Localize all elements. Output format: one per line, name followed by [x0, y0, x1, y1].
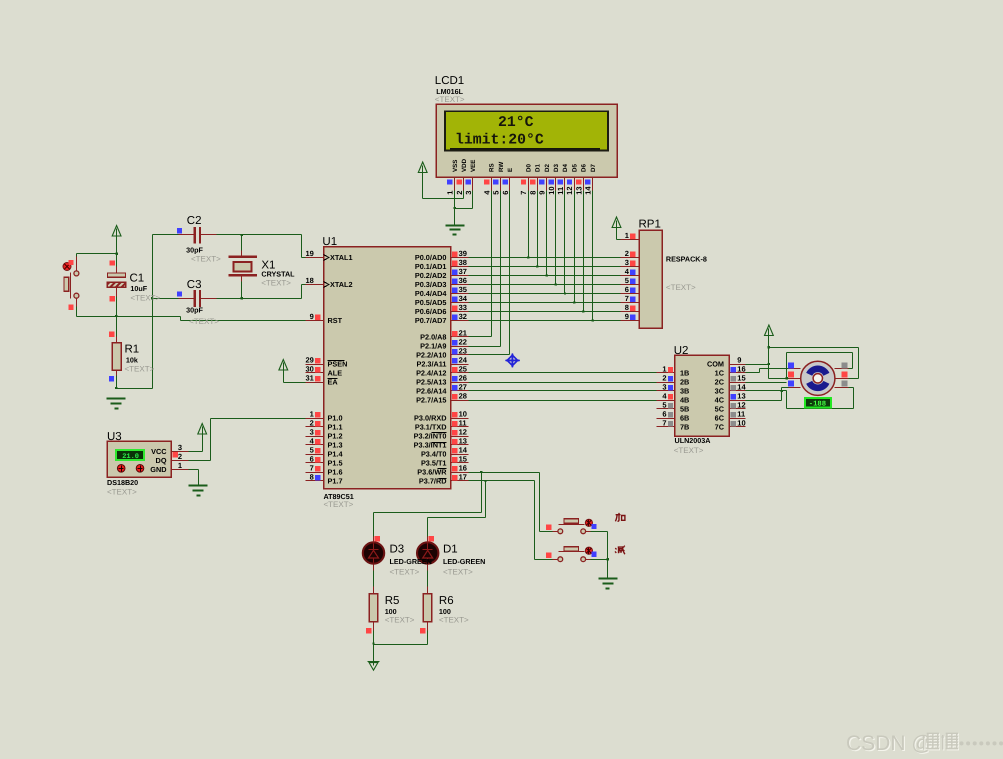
svg-text:D7: D7: [590, 164, 597, 172]
svg-text:30pF: 30pF: [186, 305, 203, 314]
svg-text:RS: RS: [489, 163, 496, 172]
svg-text:LED-GREEN: LED-GREEN: [390, 557, 432, 566]
svg-text:26: 26: [459, 374, 467, 383]
svg-text:6B: 6B: [680, 414, 689, 423]
svg-text:22: 22: [459, 338, 467, 347]
svg-text:<TEXT>: <TEXT>: [443, 568, 473, 577]
svg-text:D1: D1: [535, 164, 542, 172]
svg-text:12: 12: [737, 401, 745, 410]
svg-text:D3: D3: [390, 544, 405, 556]
svg-text:14: 14: [459, 446, 468, 455]
svg-text:16: 16: [737, 365, 745, 374]
svg-text:P0.7/AD7: P0.7/AD7: [415, 316, 447, 325]
svg-text:P2.5/A13: P2.5/A13: [416, 378, 446, 387]
svg-text:5: 5: [492, 191, 501, 195]
svg-text:C3: C3: [187, 279, 202, 291]
svg-text:P1.4: P1.4: [328, 450, 344, 459]
svg-text:1B: 1B: [680, 369, 689, 378]
svg-text:P0.0/AD0: P0.0/AD0: [415, 253, 447, 262]
svg-text:10: 10: [737, 419, 745, 428]
svg-text:P0.5/AD5: P0.5/AD5: [415, 298, 447, 307]
svg-text:5: 5: [662, 401, 666, 410]
svg-text:<TEXT>: <TEXT>: [385, 616, 415, 625]
svg-text:<TEXT>: <TEXT>: [666, 283, 696, 292]
svg-text:1: 1: [446, 191, 455, 195]
svg-text:P0.1/AD1: P0.1/AD1: [415, 262, 447, 271]
svg-text:P0.3/AD3: P0.3/AD3: [415, 280, 447, 289]
svg-text:3C: 3C: [715, 387, 725, 396]
svg-text:2B: 2B: [680, 378, 689, 387]
svg-text:RST: RST: [328, 316, 343, 325]
svg-text:23: 23: [459, 347, 467, 356]
svg-text:XTAL1: XTAL1: [330, 253, 353, 262]
svg-text:R5: R5: [385, 595, 400, 607]
svg-text:37: 37: [459, 267, 467, 276]
svg-text:9: 9: [538, 191, 547, 195]
svg-text:21.0: 21.0: [122, 453, 139, 461]
svg-text:P3.0/RXD: P3.0/RXD: [414, 414, 446, 423]
svg-text:2: 2: [455, 191, 464, 195]
svg-text:LED-GREEN: LED-GREEN: [443, 557, 485, 566]
svg-text:<TEXT>: <TEXT>: [435, 95, 465, 104]
svg-text:E: E: [507, 168, 514, 172]
svg-text:8: 8: [310, 473, 314, 482]
svg-text:DS18B20: DS18B20: [107, 478, 138, 487]
svg-text:33: 33: [459, 303, 467, 312]
svg-text:P3.3/INT1: P3.3/INT1: [414, 441, 447, 450]
svg-text:2: 2: [662, 374, 666, 383]
svg-text:RW: RW: [498, 162, 505, 172]
svg-text:P2.3/A11: P2.3/A11: [416, 360, 446, 369]
svg-text:P0.2/AD2: P0.2/AD2: [415, 271, 447, 280]
svg-text:P2.1/A9: P2.1/A9: [420, 342, 446, 351]
svg-text:14: 14: [737, 383, 746, 392]
svg-text:P1.7: P1.7: [328, 477, 343, 486]
svg-text:5B: 5B: [680, 405, 689, 414]
svg-text:6: 6: [310, 455, 314, 464]
svg-text:<TEXT>: <TEXT>: [439, 616, 469, 625]
svg-text:9: 9: [310, 312, 314, 321]
svg-text:P2.0/A8: P2.0/A8: [420, 333, 446, 342]
svg-text:2: 2: [625, 249, 629, 258]
svg-text:13: 13: [574, 186, 583, 194]
svg-text:R6: R6: [439, 595, 454, 607]
svg-text:<TEXT>: <TEXT>: [130, 294, 160, 303]
svg-text:12: 12: [459, 428, 467, 437]
svg-text:P1.2: P1.2: [328, 432, 343, 441]
svg-text:RESPACK-8: RESPACK-8: [666, 254, 707, 263]
svg-text:3: 3: [464, 191, 473, 195]
svg-text:29: 29: [305, 356, 313, 365]
svg-text:P2.6/A14: P2.6/A14: [416, 387, 447, 396]
svg-text:P3.5/T1: P3.5/T1: [421, 459, 447, 468]
svg-text:2C: 2C: [715, 378, 725, 387]
svg-text:18: 18: [305, 276, 313, 285]
svg-text:4C: 4C: [715, 396, 725, 405]
svg-text:6: 6: [662, 410, 666, 419]
svg-text:D2: D2: [544, 164, 551, 172]
svg-text:P1.6: P1.6: [328, 468, 343, 477]
svg-text:<TEXT>: <TEXT>: [189, 317, 219, 326]
svg-text:P3.7/RD: P3.7/RD: [419, 477, 447, 486]
svg-text:24: 24: [459, 356, 468, 365]
svg-text:7C: 7C: [715, 423, 725, 432]
svg-text:31: 31: [305, 374, 313, 383]
svg-text:8: 8: [528, 191, 537, 195]
svg-text:38: 38: [459, 258, 467, 267]
svg-text:6: 6: [625, 285, 629, 294]
svg-text:5C: 5C: [715, 405, 725, 414]
svg-text:25: 25: [459, 365, 467, 374]
svg-text:8: 8: [625, 303, 629, 312]
svg-text:3: 3: [178, 443, 182, 452]
svg-text:<TEXT>: <TEXT>: [674, 446, 704, 455]
svg-text:VEE: VEE: [470, 160, 477, 172]
svg-text:U2: U2: [674, 345, 689, 357]
svg-text:9: 9: [625, 312, 629, 321]
svg-text:15: 15: [737, 374, 745, 383]
svg-text:1C: 1C: [715, 369, 725, 378]
svg-text:DQ: DQ: [156, 456, 167, 465]
svg-text:<TEXT>: <TEXT>: [125, 365, 155, 374]
svg-text:5: 5: [310, 446, 314, 455]
svg-text:6: 6: [501, 191, 510, 195]
svg-text:28: 28: [459, 392, 467, 401]
svg-text:CRYSTAL: CRYSTAL: [261, 269, 295, 278]
svg-text:30: 30: [305, 365, 313, 374]
svg-text:<TEXT>: <TEXT>: [324, 500, 354, 509]
svg-text:<TEXT>: <TEXT>: [390, 568, 420, 577]
svg-text:R1: R1: [125, 344, 140, 356]
svg-text:-188: -188: [809, 401, 826, 409]
svg-text:1: 1: [662, 365, 666, 374]
svg-text:P0.4/AD4: P0.4/AD4: [415, 289, 448, 298]
svg-text:P0.6/AD6: P0.6/AD6: [415, 307, 447, 316]
svg-text:17: 17: [459, 473, 467, 482]
svg-text:P3.1/TXD: P3.1/TXD: [415, 423, 447, 432]
svg-text:1: 1: [178, 461, 182, 470]
svg-text:2: 2: [310, 419, 314, 428]
svg-text:P1.5: P1.5: [328, 459, 343, 468]
svg-text:36: 36: [459, 276, 467, 285]
svg-text:21: 21: [459, 329, 467, 338]
svg-text:6C: 6C: [715, 414, 725, 423]
svg-text:3: 3: [625, 258, 629, 267]
svg-text:13: 13: [737, 392, 745, 401]
svg-text:7: 7: [625, 294, 629, 303]
svg-text:P2.2/A10: P2.2/A10: [416, 351, 446, 360]
svg-text:ALE: ALE: [328, 369, 343, 378]
svg-text:7: 7: [519, 191, 528, 195]
svg-text:D3: D3: [553, 164, 560, 172]
svg-text:D6: D6: [581, 164, 588, 172]
svg-text:LCD1: LCD1: [435, 75, 464, 87]
svg-text:U3: U3: [107, 431, 122, 443]
svg-text:14: 14: [584, 186, 593, 195]
svg-text:10: 10: [459, 410, 467, 419]
svg-text:GND: GND: [150, 465, 166, 474]
svg-text:<TEXT>: <TEXT>: [261, 279, 291, 288]
svg-text:10k: 10k: [126, 355, 138, 364]
svg-text:1: 1: [310, 410, 314, 419]
svg-text:100: 100: [385, 607, 397, 616]
svg-text:COM: COM: [707, 360, 724, 369]
svg-text:<TEXT>: <TEXT>: [191, 254, 221, 263]
svg-text:30pF: 30pF: [186, 245, 203, 254]
svg-text:VCC: VCC: [151, 447, 167, 456]
svg-text:12: 12: [565, 186, 574, 194]
svg-text:21°C: 21°C: [498, 115, 534, 131]
svg-text:<TEXT>: <TEXT>: [107, 488, 137, 497]
svg-text:C1: C1: [130, 273, 145, 285]
svg-text:10uF: 10uF: [130, 284, 147, 293]
svg-text:C2: C2: [187, 215, 202, 227]
svg-text:9: 9: [737, 356, 741, 365]
svg-text:RP1: RP1: [639, 218, 661, 230]
svg-text:2: 2: [178, 452, 182, 461]
svg-text:D0: D0: [525, 164, 532, 172]
svg-text:3: 3: [310, 428, 314, 437]
svg-text:XTAL2: XTAL2: [330, 280, 353, 289]
svg-text:4B: 4B: [680, 396, 689, 405]
svg-text:CSDN @: CSDN @: [846, 732, 933, 755]
svg-text:U1: U1: [322, 236, 337, 248]
svg-text:P1.3: P1.3: [328, 441, 343, 450]
svg-text:VSS: VSS: [452, 160, 459, 172]
svg-text:13: 13: [459, 437, 467, 446]
svg-text:7B: 7B: [680, 423, 689, 432]
svg-text:34: 34: [459, 294, 468, 303]
svg-text:11: 11: [737, 410, 745, 419]
svg-text:27: 27: [459, 383, 467, 392]
svg-text:P2.4/A12: P2.4/A12: [416, 369, 446, 378]
svg-text:11: 11: [459, 419, 467, 428]
svg-text:11: 11: [556, 187, 565, 195]
svg-text:10: 10: [547, 186, 556, 194]
svg-text:16: 16: [459, 464, 467, 473]
svg-text:32: 32: [459, 312, 467, 321]
svg-text:7: 7: [310, 464, 314, 473]
svg-text:P1.0: P1.0: [328, 414, 343, 423]
svg-text:100: 100: [439, 607, 451, 616]
svg-text:3B: 3B: [680, 387, 689, 396]
svg-text:D5: D5: [571, 164, 578, 172]
svg-text:15: 15: [459, 455, 467, 464]
svg-text:5: 5: [625, 276, 629, 285]
svg-text:19: 19: [305, 249, 313, 258]
svg-text:1: 1: [625, 231, 629, 240]
svg-text:7: 7: [662, 419, 666, 428]
svg-text:D4: D4: [562, 164, 569, 172]
svg-text:D1: D1: [443, 544, 458, 556]
svg-text:VDD: VDD: [461, 158, 468, 172]
svg-text:P3.4/T0: P3.4/T0: [421, 450, 447, 459]
svg-text:35: 35: [459, 285, 467, 294]
svg-text:P2.7/A15: P2.7/A15: [416, 396, 446, 405]
svg-text:limit:20°C: limit:20°C: [455, 133, 544, 149]
svg-text:39: 39: [459, 249, 467, 258]
svg-text:P1.1: P1.1: [328, 423, 343, 432]
svg-text:3: 3: [662, 383, 666, 392]
svg-text:ULN2003A: ULN2003A: [675, 436, 711, 445]
